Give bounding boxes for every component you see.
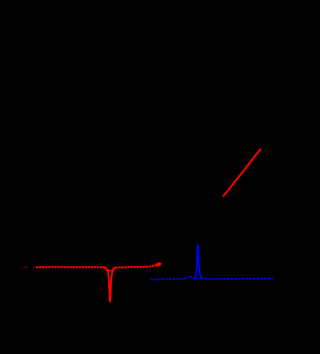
red end blob (merged markers) xyxy=(155,262,162,268)
blue series: dashed baseline with emission peak xyxy=(151,276,274,280)
red absorption dip spike (solid) xyxy=(105,268,115,302)
red series 1: dotted baseline with absorption dip xyxy=(37,263,160,270)
blue emission peak (solid) xyxy=(195,245,202,278)
faint red lead-in dash xyxy=(25,266,28,268)
red series 2: rising diagonal segment xyxy=(223,149,260,196)
